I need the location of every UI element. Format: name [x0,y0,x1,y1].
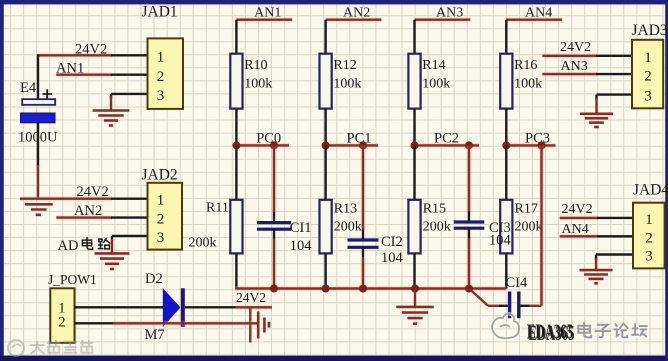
value label 104 (CI2) [381,250,404,266]
designator label CI3 [489,220,511,236]
designator label R12 [333,58,356,73]
designator label R13 [334,202,357,217]
svg-text:AN2: AN2 [74,203,102,219]
pin 1 (JAD3) [644,50,652,66]
designator label R10 [244,58,267,73]
svg-text:200k: 200k [189,235,217,250]
connector JAD1 [148,38,184,109]
ground (JAD2) [95,239,130,269]
node PC2 junction left [411,141,419,149]
net label 24V2 (JAD3) [560,40,591,55]
resistor R15 [408,200,420,254]
value label 200k (R13) [334,220,362,235]
value label 104 (CI3) [489,232,512,248]
wire net PC0 [236,143,289,148]
node bus junction bus-GND/R15 [411,285,419,293]
wire AN2 to JAD2 pin2 [56,215,147,220]
wire JAD1 pin3 to ground [111,94,148,99]
svg-text:PC1: PC1 [347,130,372,146]
svg-text:CI2: CI2 [381,234,403,250]
resistor R12 [320,54,332,109]
node bus junction CI3 [465,285,473,293]
wire GND bus (bottom horizontal) [235,286,506,291]
svg-text:JAD2: JAD2 [142,166,178,183]
svg-text:D2: D2 [145,271,163,287]
wire JAD3 pin3 to ground [597,95,633,100]
svg-text:E4: E4 [20,80,37,96]
net label PC3 [525,130,550,146]
wire PC3 column down to CI4 [539,145,544,305]
node bus junction CI2 [359,285,367,293]
wire R11 to GND bus [235,253,237,288]
designator label CI1 [290,220,312,236]
svg-text:2: 2 [58,315,65,331]
resistor R17 [500,200,512,254]
pin 1 (J_POW1) [58,300,65,316]
wire PC1 down to CI2 [361,145,366,240]
svg-text:AN4: AN4 [562,222,589,237]
node PC1 junction right [359,141,367,149]
wire D2 cathode to 24V2 [185,306,272,308]
svg-text:R15: R15 [423,202,446,217]
wire PC1 to R13 [324,145,326,200]
net label AN1 (JAD1) [56,60,84,76]
value label 100k (R12) [333,76,361,91]
svg-text:PC3: PC3 [525,130,550,146]
node bus junction R13 [322,285,330,293]
svg-text:J_POW1: J_POW1 [48,272,97,287]
connector JAD2 designator [142,166,178,183]
wire JAD4 pin3 to ground [596,255,633,261]
net label 24V2 (JAD1) [75,41,107,57]
diode D2 designator [145,271,163,287]
svg-text:R14: R14 [422,58,445,73]
net label AN2 (JAD2) [74,203,102,219]
designator label CI4 [506,275,529,291]
node PC1 junction left [322,141,330,149]
svg-text:2: 2 [157,212,165,228]
svg-text:104: 104 [290,238,313,254]
watermark text EDA365 [527,320,575,345]
svg-text:200k: 200k [334,220,362,235]
wire M7 from J_POW1 pin2 [75,322,258,324]
resistor R10 [230,54,242,109]
wire net AN1 (top) [236,17,292,22]
wire CI4 to 24V2 column [521,305,542,307]
svg-text:JAD4: JAD4 [633,181,668,198]
svg-text:3: 3 [644,88,652,104]
capacitor E4 designator [20,80,37,96]
connector JAD2 [148,183,183,250]
connector J_POW1 [50,288,74,343]
resistor R14 [408,54,420,109]
wire AN2 to R12 [324,20,326,55]
pin 2 (JAD4) [645,231,653,247]
svg-text:AN3: AN3 [436,6,463,21]
wire 24V2 from E4 to JAD1 pin1 [37,53,147,58]
svg-text:R17: R17 [515,202,538,217]
value label 1000U [18,130,58,146]
net label PC1 [347,130,372,146]
wire CI2 to GND bus [362,247,364,288]
resistor R11 [230,200,242,254]
capacitor E4 top plate [22,99,55,105]
wire R16 to PC3 [505,109,507,146]
ground (bus) [396,289,433,324]
value label 100k (R16) [514,76,542,91]
ground (E4) merged with 24V2 wire to JAD2 pin1 [20,199,148,215]
node PC2 junction right [465,141,473,149]
svg-text:100k: 100k [514,76,542,91]
svg-text:R16: R16 [514,58,537,73]
svg-text:100k: 100k [422,76,450,91]
designator label R15 [423,202,446,217]
svg-text:24V2: 24V2 [236,290,266,305]
svg-text:24V2: 24V2 [560,40,591,55]
pin 1 (JAD1) [157,49,165,65]
svg-text:R13: R13 [334,202,357,217]
wire PC2 down to CI3 [467,145,472,222]
wire net PC2 [415,143,480,148]
connector J_POW1 designator [48,272,97,287]
wire PC2 to R15 [413,145,415,200]
wire PC0 to R11 [235,145,237,200]
net label 24V2 (JAD4) [562,202,593,217]
watermark bird logo (EDA365) [492,314,519,338]
svg-text:M7: M7 [145,327,165,343]
net label PC0 [256,130,281,146]
watermark text 电子论坛 [578,323,648,339]
wire AN1 to R10 [235,20,237,55]
wire AN4 to R16 [505,20,507,55]
pin 2 (JAD1) [157,69,165,85]
wire JAD2 pin3 to ground [112,236,148,241]
svg-text:2: 2 [645,231,653,247]
wire R15 to GND bus [413,253,415,288]
value label 200k (R17) [515,220,543,235]
wire R14 to PC2 [413,109,415,146]
svg-text:200k: 200k [515,220,543,235]
pin 2 (JAD3) [644,69,652,85]
svg-text:104: 104 [381,250,404,266]
svg-text:R12: R12 [333,58,356,73]
net class label AD电路 [58,238,110,254]
ground (JAD4) [580,258,613,283]
wire net AN3 (top) [415,17,471,22]
net label AN3 (JAD3) [561,59,588,74]
svg-text:CI1: CI1 [290,220,312,236]
wire AN4 to JAD4 pin2 [560,234,633,239]
svg-text:1: 1 [644,50,652,66]
svg-text:2: 2 [157,69,165,85]
wire net AN2 (top) [326,17,382,22]
svg-text:2: 2 [644,69,652,85]
svg-text:3: 3 [157,230,165,246]
svg-text:AN3: AN3 [561,59,588,74]
ground (JAD3) [580,98,613,127]
wire AN3 to R14 [413,20,415,55]
connector JAD4 designator [633,181,668,198]
resistor R16 [500,54,512,109]
watermark bottom-left logo [8,340,24,356]
wire R10 to PC0 [235,109,237,146]
net label AN3 (top) [436,6,463,21]
designator label R14 [422,58,445,73]
resistor R13 [320,200,332,254]
value label 100k (R14) [422,76,450,91]
connector JAD3 [632,40,663,109]
designator label CI2 [381,234,403,250]
svg-text:1: 1 [645,212,653,228]
connector JAD4 [633,203,665,269]
wire net PC3 [506,143,555,148]
wire R12 to PC1 [324,109,326,146]
connector JAD1 designator [142,4,178,21]
node bus junction CI1 [270,285,278,293]
designator label R16 [514,58,537,73]
wire E4 top [37,54,39,99]
svg-text:AN2: AN2 [343,6,370,21]
net label AN4 (JAD4) [562,222,589,237]
wire bus diagonal to CI4 [469,289,508,306]
net label AN2 (top) [343,6,370,21]
svg-text:AN1: AN1 [254,6,281,21]
pin 3 (JAD3) [644,88,652,104]
svg-text:1: 1 [157,49,165,65]
svg-text:24V2: 24V2 [562,202,593,217]
svg-text:3: 3 [645,249,653,265]
wire AN3 to JAD3 pin2 [542,72,632,77]
wire net AN4 (top) [506,17,562,22]
value label 200k (R15) [423,220,451,235]
svg-text:100k: 100k [244,76,272,91]
pin 3 (JAD4) [645,249,653,265]
svg-text:PC2: PC2 [434,130,459,146]
designator label R11 [206,200,229,215]
pin 1 (JAD4) [645,212,653,228]
svg-text:104: 104 [489,232,512,248]
svg-text:AN1: AN1 [56,60,84,76]
svg-text:AD: AD [58,238,79,254]
capacitor E4 polarity + [43,89,53,98]
value label 100k (R10) [244,76,272,91]
svg-text:24V2: 24V2 [77,184,109,200]
net label PC2 [434,130,459,146]
node PC3 junction right [538,141,546,149]
wire 24V2 drop (vertical) [249,307,251,342]
svg-text:R11: R11 [206,200,229,215]
wire 24V2 to JAD3 pin1 [542,53,632,58]
svg-text:1: 1 [157,192,165,208]
capacitor CI3 [454,222,485,228]
svg-text:JAD1: JAD1 [142,4,178,21]
ground (JAD1) [93,96,130,126]
connector JAD3 designator [632,22,668,39]
wire R17 to GND bus [505,253,507,288]
svg-text:3: 3 [157,88,165,104]
net label AN4 (top) [525,6,552,21]
wire PC3 to R17 [505,145,507,200]
svg-text:24V2: 24V2 [75,41,107,57]
svg-text:CI4: CI4 [506,275,529,291]
node PC0 junction right [270,141,278,149]
ground (rotated, M7) [258,312,269,339]
diode D2 [163,288,185,327]
pin 3 (JAD1) [157,88,165,104]
wire 24V2 to JAD4 pin1 [560,215,633,220]
wire PC0 down to CI1 [272,145,277,222]
node PC3 junction left [502,141,510,149]
wire CI1 to GND bus [273,229,275,288]
capacitor CI1 [257,223,291,230]
svg-text:100k: 100k [333,76,361,91]
designator label R17 [515,202,538,217]
pin 2 (JAD2) [157,212,165,228]
net label 24V2 (D2 output) [236,290,266,305]
pin 2 (J_POW1) [58,315,65,331]
wire AN1 to JAD1 pin2 [56,72,147,77]
node PC0 junction left [232,141,240,149]
net label M7 [145,327,165,343]
capacitor CI4 [510,292,519,319]
svg-text:200k: 200k [423,220,451,235]
wire net PC1 [326,143,378,148]
svg-text:R10: R10 [244,58,267,73]
svg-text:JAD3: JAD3 [632,22,668,39]
wire R13 to GND bus [324,253,326,288]
value label 104 (CI1) [290,238,313,254]
capacitor CI2 [348,240,379,247]
net label AN1 (top) [254,6,281,21]
wire CI3 to GND bus [468,228,470,288]
watermark bottom-left text [31,341,93,354]
svg-text:AN4: AN4 [525,6,552,21]
svg-text:EDA365: EDA365 [527,320,573,344]
net label 24V2 (JAD2) [77,184,109,200]
pin 3 (JAD2) [157,230,165,246]
value label 200k (R11) [189,235,217,250]
wire E4 bottom to ground [37,123,39,199]
pin 1 (JAD2) [157,192,165,208]
capacitor E4 bottom plate [21,113,56,123]
wire J_POW1 pin1 to D2 anode [75,306,164,308]
